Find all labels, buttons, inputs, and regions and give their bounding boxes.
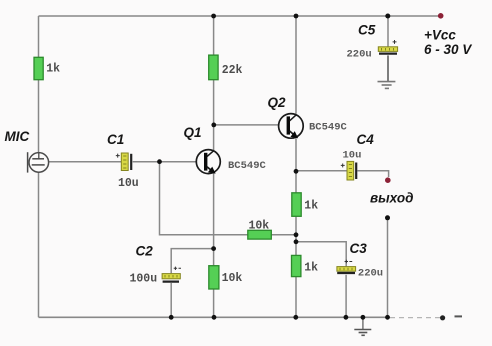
svg-text:MIC: MIC <box>5 129 30 144</box>
svg-text:1k: 1k <box>304 262 318 275</box>
transistor Q2 <box>268 95 348 138</box>
node dot top rail Q2 <box>294 14 299 19</box>
ground G2 bottom <box>354 330 371 336</box>
node dot Q2 emitter out <box>294 169 299 174</box>
node output terminal red <box>385 177 391 183</box>
svg-text:C2: C2 <box>136 244 154 259</box>
resistor R3 10k horizontal <box>248 220 271 240</box>
resistor R2 22k <box>209 55 243 80</box>
wire top rail <box>39 15 441 17</box>
capacitor C3 <box>337 241 383 279</box>
svg-text:10u: 10u <box>343 150 362 162</box>
node dot bottom ground <box>361 315 366 320</box>
wire C2 branch bottom <box>170 283 172 317</box>
node Vcc terminal red <box>438 13 444 19</box>
svg-text:22k: 22k <box>222 64 243 77</box>
wire C5 branch bottom <box>387 55 389 81</box>
wire mic to C1 <box>48 161 121 163</box>
svg-text:1k: 1k <box>46 62 60 75</box>
wire left rail lower <box>38 172 40 317</box>
wire output right <box>357 171 388 177</box>
node dot output return top <box>385 215 390 220</box>
svg-text:10k: 10k <box>222 272 243 285</box>
node dot top rail 22k <box>211 14 216 19</box>
wire C1 to Q1 base <box>133 161 197 163</box>
wire left rail upper <box>38 16 40 153</box>
node dot bottom rail end <box>440 315 445 320</box>
svg-text:6 - 30 V: 6 - 30 V <box>424 42 472 57</box>
resistor R6 10k vertical <box>209 266 243 289</box>
svg-text:10k: 10k <box>249 220 270 233</box>
wire C3 branch bottom <box>345 275 347 318</box>
microphone MIC <box>5 129 49 173</box>
capacitor C5 <box>347 23 398 61</box>
node dot Q2 base <box>211 123 216 128</box>
wire Q2 base <box>214 124 279 126</box>
wire output left <box>296 170 347 172</box>
wire Q1 emitter line <box>213 172 215 317</box>
wire 22k collector line <box>213 16 215 151</box>
resistor R4 1k upper <box>292 193 318 217</box>
capacitor C2 <box>130 244 182 286</box>
svg-text:10u: 10u <box>118 177 139 190</box>
node dot bottom R5 <box>293 315 298 320</box>
ground G1 below C5 <box>378 82 396 89</box>
svg-text:BC549C: BC549C <box>309 122 348 134</box>
wire C5 branch top <box>387 16 389 47</box>
svg-text:C1: C1 <box>107 132 124 147</box>
node dot C1 Q1 base <box>157 159 162 164</box>
wire bottom rail <box>39 316 391 318</box>
wire Q2 collector line <box>295 16 297 114</box>
node dot 10k junction upper <box>294 232 299 237</box>
wire C3 branch top <box>296 242 346 266</box>
node dot C2 branch junction <box>211 246 216 251</box>
wire Q2 emitter line <box>295 138 297 317</box>
node dot bottom C2 <box>169 315 174 320</box>
resistor R1 1k <box>34 57 60 79</box>
svg-text:выход: выход <box>370 190 413 205</box>
svg-text:C5: C5 <box>358 23 376 38</box>
node dot bottom output return <box>385 315 390 320</box>
wire output return <box>387 218 389 317</box>
transistor Q1 <box>184 125 267 174</box>
node dot bottom C3 <box>344 315 349 320</box>
ground stub bottom <box>362 317 364 329</box>
svg-text:220u: 220u <box>347 49 372 61</box>
wire bottom rail faded <box>390 317 441 319</box>
svg-text:100u: 100u <box>130 273 158 286</box>
svg-text:C4: C4 <box>357 132 375 147</box>
resistor R5 1k lower <box>292 255 319 276</box>
node dot top rail C5 <box>385 14 390 19</box>
node dot bottom Q1 emitter <box>212 315 217 320</box>
svg-text:BC549C: BC549C <box>228 160 267 172</box>
capacitor C1 <box>107 132 139 190</box>
svg-text:C3: C3 <box>350 241 368 256</box>
wire feedback to 10k <box>160 162 297 235</box>
svg-text:1k: 1k <box>304 200 318 213</box>
svg-text:Q1: Q1 <box>184 125 202 140</box>
svg-text:220u: 220u <box>358 267 383 279</box>
svg-text:Q2: Q2 <box>268 95 287 110</box>
node dot C3 branch junction <box>294 239 299 244</box>
wire bottom rail end dash <box>455 315 463 317</box>
capacitor C4 <box>341 132 374 180</box>
wire C2 branch top <box>171 249 213 274</box>
svg-text:+Vcc: +Vcc <box>424 28 456 43</box>
